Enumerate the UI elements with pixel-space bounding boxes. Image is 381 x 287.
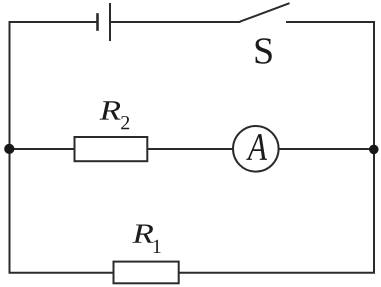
ammeter U1 circle xyxy=(233,126,279,172)
node: right junction dot xyxy=(369,145,379,155)
wire bottom: bottom-left corner to resistor R1 xyxy=(9,272,115,274)
wire left vertical (top-left corner down to bottom-left corner) xyxy=(9,21,11,274)
wire middle: ammeter to right node xyxy=(279,148,374,150)
wire middle: left node to resistor R2 xyxy=(10,148,76,150)
wire right vertical xyxy=(373,21,375,274)
wire from battery to switch contact xyxy=(110,21,241,23)
battery cell: long positive plate xyxy=(109,3,111,41)
resistor R2 body xyxy=(75,137,148,161)
switch S: open blade xyxy=(240,3,290,21)
label R1 : italic R xyxy=(132,224,153,242)
resistor R1 body xyxy=(114,262,179,284)
label R2 : subscript 2 xyxy=(121,116,129,129)
ammeter letter A xyxy=(246,134,267,160)
label R2 : italic R xyxy=(100,101,121,119)
wire middle: R2 to ammeter xyxy=(147,148,233,150)
wire top segment from top-left corner to battery xyxy=(9,21,98,23)
node: left junction dot xyxy=(4,144,14,154)
label R1 : subscript 1 xyxy=(154,240,161,253)
wire from switch right contact to top-right corner xyxy=(286,21,375,23)
wire bottom: R1 to bottom-right corner xyxy=(179,272,375,274)
battery cell: short negative plate xyxy=(96,13,99,31)
label S (switch) xyxy=(256,38,272,64)
